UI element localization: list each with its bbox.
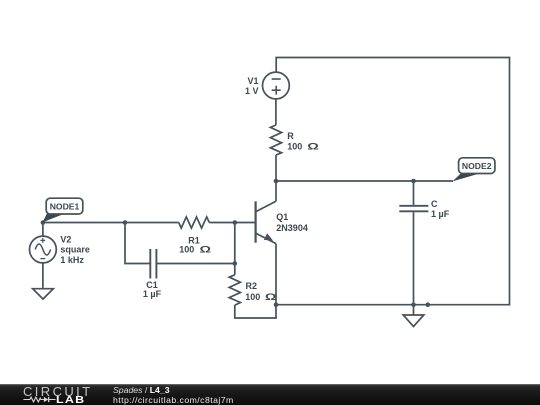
svg-text:Ω: Ω	[200, 244, 212, 254]
svg-text:V2: V2	[60, 235, 71, 245]
svg-text:R2: R2	[246, 281, 258, 291]
svg-text:1 V: 1 V	[245, 86, 259, 96]
svg-text:Ω: Ω	[307, 141, 319, 151]
svg-text:R: R	[287, 131, 294, 141]
svg-text:100: 100	[287, 141, 302, 151]
svg-text:C: C	[431, 199, 438, 209]
svg-text:2N3904: 2N3904	[276, 223, 308, 233]
svg-text:NODE1: NODE1	[50, 201, 80, 211]
svg-text:Ω: Ω	[265, 292, 277, 302]
svg-text:100: 100	[179, 244, 194, 254]
svg-text:100: 100	[245, 292, 260, 302]
svg-text:V1: V1	[247, 76, 258, 86]
svg-text:square: square	[60, 245, 90, 255]
svg-text:1 kHz: 1 kHz	[60, 255, 84, 265]
svg-text:NODE2: NODE2	[462, 161, 492, 171]
svg-text:Q1: Q1	[276, 212, 288, 222]
svg-text:1 µF: 1 µF	[143, 289, 162, 299]
svg-text:1 µF: 1 µF	[431, 209, 450, 219]
